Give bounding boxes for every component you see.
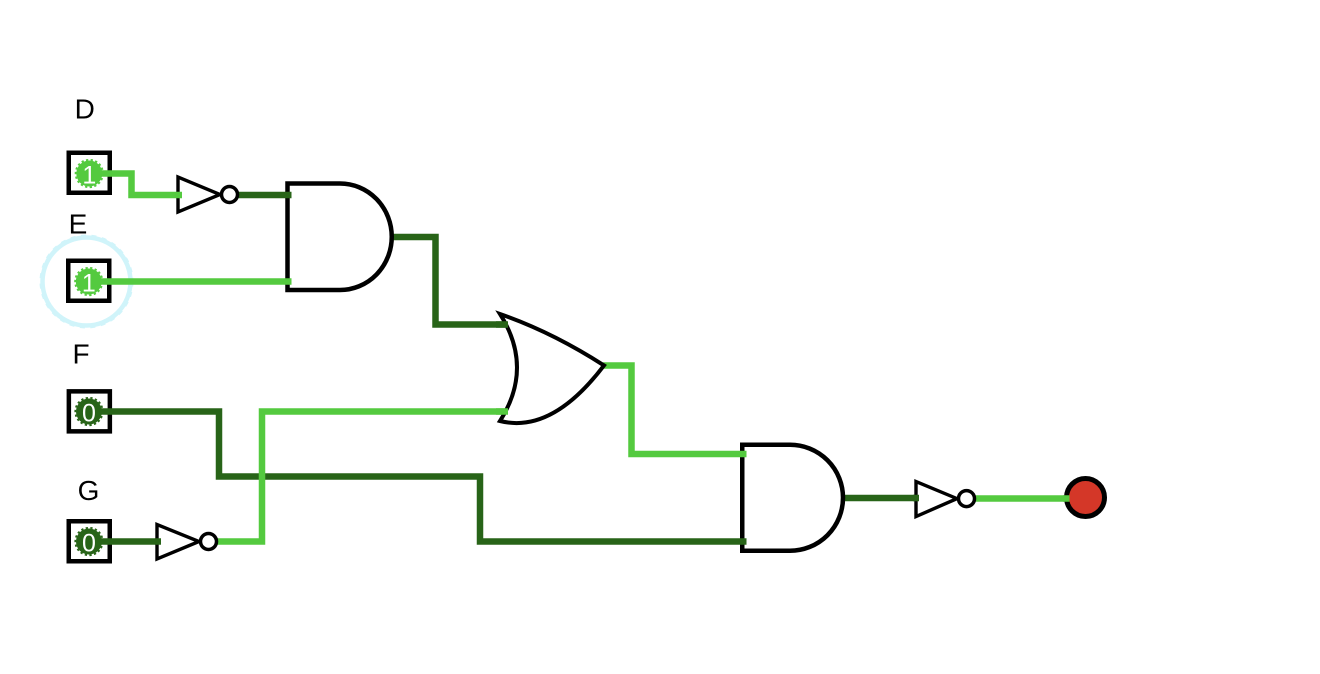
NOT gate U6 (output inverter) (916, 482, 975, 517)
input box E (68, 261, 109, 301)
svg-text:1: 1 (82, 161, 96, 189)
wire NOT1 out to AND1 top input (238, 192, 289, 199)
selection halo around input E (43, 238, 131, 326)
wire E to AND1 bottom input (101, 278, 289, 285)
wire stub at NOT2 input (155, 538, 161, 545)
input box F (69, 391, 110, 431)
input box G (69, 521, 110, 561)
wire AND2 out to NOT3 (842, 495, 917, 502)
wire stub at OR bottom input (496, 408, 508, 415)
wire stub at NOT1 input (176, 192, 182, 199)
OR gate U3 (500, 314, 604, 423)
wire stub at AND1 bottom input (285, 278, 292, 285)
AND gate U2 (top AND) (288, 184, 392, 291)
wire NOT2 out to OR bottom input (216, 412, 505, 542)
AND gate U5 (right AND) (742, 445, 843, 551)
wire G to NOT2 (101, 538, 158, 545)
wire F to AND2 bottom input (101, 412, 744, 542)
wire OR out to AND2 top input (603, 366, 744, 455)
wire NOT3 out to LED (974, 495, 1070, 502)
svg-text:E: E (69, 209, 88, 240)
wire AND1 out to OR top input (392, 237, 505, 325)
wire stub at LED input (1063, 495, 1070, 502)
svg-text:F: F (73, 339, 90, 370)
svg-text:0: 0 (82, 399, 96, 427)
svg-text:G: G (78, 475, 100, 506)
wire stub at AND2 bottom input (740, 538, 747, 545)
svg-text:1: 1 (82, 269, 96, 297)
svg-text:D: D (75, 94, 95, 125)
input box D (69, 153, 110, 193)
svg-text:0: 0 (82, 529, 96, 557)
wire stub at NOT3 input (913, 495, 919, 502)
wire stub at AND2 top input (740, 451, 747, 458)
wire stub at AND1 top input (285, 192, 292, 199)
wire stub at OR top input (496, 321, 508, 328)
output LED (red) (1067, 479, 1105, 517)
NOT gate U1 (inverter after D) (178, 177, 238, 212)
wire D to NOT1 (102, 174, 181, 196)
NOT gate U4 (inverter after G) (157, 525, 217, 560)
